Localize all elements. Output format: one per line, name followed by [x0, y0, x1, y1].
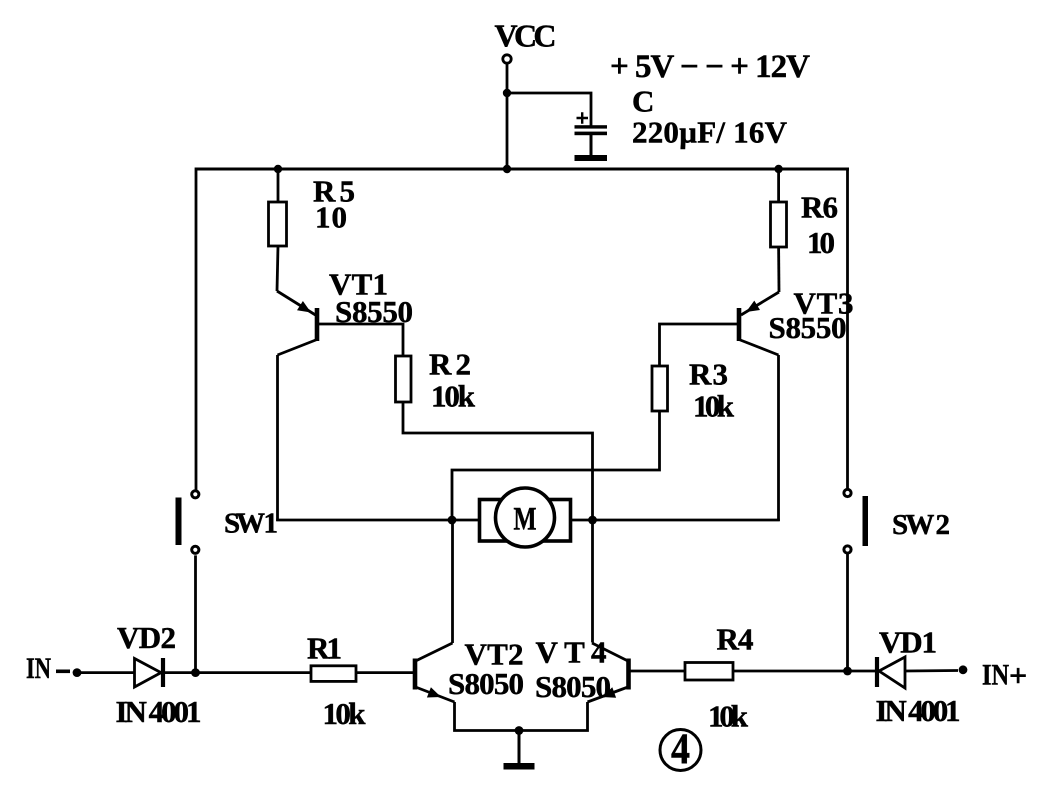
node ground junction [515, 726, 524, 735]
svg-text:220µF/ 16V: 220µF/ 16V [632, 115, 788, 150]
wire rail to R5 [277, 169, 280, 202]
diode VD2 [135, 658, 164, 687]
resistor R5 [269, 202, 287, 246]
wire R5 to VT1 emitter [277, 246, 278, 291]
wire VD1 to IN+ [905, 669, 958, 672]
node rail R5 [274, 165, 282, 173]
svg-text:10k: 10k [323, 696, 367, 731]
svg-text:+: + [1009, 657, 1027, 693]
node SW2 bottom junction [843, 667, 852, 676]
svg-text:VD1: VD1 [879, 625, 937, 660]
svg-text:S8050: S8050 [448, 666, 524, 701]
transistor VT1 [277, 291, 317, 355]
wire capacitor branch [507, 93, 591, 126]
svg-text:S8050: S8050 [535, 669, 611, 704]
svg-text:IN 4001: IN 4001 [876, 693, 961, 728]
svg-text:R1: R1 [307, 631, 342, 666]
svg-text:C: C [632, 84, 654, 119]
svg-text:SW 1: SW 1 [224, 508, 278, 540]
terminal IN plus [959, 665, 968, 674]
wire R6 to VT3 emitter [777, 247, 780, 292]
wire R1 to VT2 base [356, 671, 413, 674]
wire top rail [196, 168, 849, 171]
node motor left [448, 516, 457, 525]
resistor R1 [311, 666, 356, 682]
svg-text:IN 4001: IN 4001 [116, 694, 202, 729]
svg-text:R6: R6 [801, 190, 838, 225]
svg-text:M: M [514, 502, 537, 538]
resistor R2 [396, 356, 412, 402]
svg-text:4: 4 [671, 726, 690, 773]
figure number 4 circled [660, 726, 701, 773]
capacitor C polarity plus [577, 112, 589, 123]
wire right rail drop to SW2 [846, 168, 849, 490]
wire rail to R6 [777, 169, 780, 202]
node SW1 bottom junction [191, 668, 200, 677]
resistor R3 [652, 366, 668, 411]
node rail R6 [774, 165, 782, 173]
svg-text:R3: R3 [689, 357, 728, 392]
svg-text:S8550: S8550 [769, 310, 847, 345]
transistor VT2 [415, 643, 455, 702]
wire R2 to motor right vertical [403, 402, 593, 643]
transistor VT3 [739, 292, 779, 355]
wire VD2 to R1 [165, 671, 311, 674]
wire R3 to VT3 base [660, 324, 738, 366]
ground [504, 731, 535, 770]
wire IN- to VD2 [77, 671, 135, 674]
svg-text:IN: IN [26, 652, 51, 685]
wire VT1 collector down [276, 355, 279, 521]
wire VT4 base to R4 [630, 670, 685, 673]
wire VCC drop [506, 63, 509, 169]
svg-text:VD2: VD2 [117, 620, 176, 655]
node motor right [588, 516, 597, 525]
node VCC junction [503, 89, 511, 97]
svg-text:+ 5V − − + 12V: + 5V − − + 12V [610, 49, 810, 85]
wire VT1 base to R2 [317, 324, 403, 356]
label minus dash [56, 670, 70, 674]
svg-text:10: 10 [315, 200, 347, 235]
resistor R6 [771, 202, 787, 247]
transistor VT4 [588, 643, 629, 702]
node rail VCC [503, 165, 511, 173]
svg-text:10k: 10k [693, 389, 735, 424]
wire VT2 collector up [451, 521, 454, 643]
motor M [480, 488, 571, 547]
wire SW1 to bottom line [194, 555, 197, 672]
wire VT3 collector down [777, 355, 780, 521]
svg-text:R2: R2 [429, 347, 471, 382]
wire VT4 emitter to ground [519, 702, 588, 731]
wire SW2 to bottom line [846, 553, 849, 671]
VCC terminal [503, 55, 511, 63]
svg-text:R4: R4 [717, 622, 754, 657]
wire left rail drop to SW1 [195, 168, 198, 491]
svg-text:10k: 10k [431, 379, 476, 414]
wire R4 to VD1 [733, 670, 875, 673]
svg-text:VCC: VCC [495, 18, 557, 54]
resistor R4 [685, 663, 733, 681]
svg-text:IN: IN [982, 659, 1009, 692]
svg-text:SW 2: SW 2 [892, 509, 950, 541]
wire motor line right [571, 519, 780, 522]
wire motor left to R3 cross link [452, 411, 660, 521]
terminal IN minus [73, 668, 82, 677]
svg-text:VT4: VT4 [536, 635, 607, 670]
switch SW2 [844, 489, 868, 553]
capacitor C [575, 125, 608, 161]
svg-text:10k: 10k [708, 699, 749, 734]
switch SW1 [176, 491, 199, 554]
wire motor line left [276, 519, 479, 522]
diode VD1 [877, 657, 905, 688]
svg-text:10: 10 [807, 225, 835, 260]
wire VT2 emitter to ground [455, 702, 520, 731]
